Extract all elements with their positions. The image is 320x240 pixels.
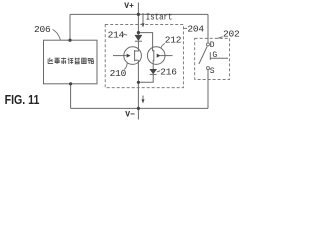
node dot: box 206 top [68,39,71,42]
diode 214 [135,35,143,51]
gate electrode G [210,52,228,60]
node dot: V- junction [137,107,140,110]
kanji text (overcurrent protection circuit) pseudo-glyphs [48,58,93,64]
svg-text:206: 206 [34,24,51,35]
svg-text:V−: V− [125,110,135,119]
svg-text:V+: V+ [124,2,134,11]
svg-text:202: 202 [223,28,240,39]
svg-text:G: G [212,51,217,60]
svg-text:216: 216 [160,67,177,78]
leader 206 [53,30,61,41]
wire center branch down [137,14,139,34]
wire V- lead [137,108,139,119]
switch blade [199,46,207,64]
leader 216 [157,71,160,72]
leader 202 [217,37,222,39]
wire V+ lead [137,3,139,15]
wire box 206 bottom drop [70,84,72,109]
svg-text:212: 212 [165,34,182,45]
wire switch S down to bottom rail [207,70,209,109]
switch terminal S [207,67,210,70]
svg-text:S: S [210,67,215,76]
svg-text:214: 214 [108,29,125,40]
node dot: diode 214 top junction [137,31,140,34]
svg-text:Istart: Istart [146,13,173,23]
current arrow Istart [142,13,145,28]
wire right FET source to diode 216 [152,60,154,69]
dashed box 202 (load FET as switch) [195,38,230,79]
wire center drop to bottom rail [137,82,139,108]
box 206 current protection circuit [44,40,98,84]
switch terminal D [207,43,210,46]
wire top rail V+ [70,13,208,15]
diode 216 [149,69,157,74]
svg-text:204: 204 [187,24,204,35]
wire branch to right FET drain [138,33,152,51]
transistor 212 (right FET) [147,47,172,65]
svg-text:FIG. 11: FIG. 11 [5,92,40,107]
dashed box 200 (bidirectional switch block) [105,25,183,88]
wire bottom rail [71,107,208,109]
leader 204 [184,27,187,29]
node dot: box 206 bottom [69,82,72,85]
leader 210 [124,63,128,70]
transistor 210 (left FET) [113,47,141,65]
node dot: source junction [137,81,140,84]
wire left FET source down [137,60,139,82]
leader 212 [161,44,165,49]
leader 214 [123,34,128,35]
node dot: V+ junction [137,13,140,16]
svg-text:D: D [210,41,215,50]
wire right drop to switch D [207,14,209,43]
wire diode 216 to junction [138,74,153,82]
wire left drop to box 206 [69,14,71,40]
current arrow bottom [142,96,145,104]
